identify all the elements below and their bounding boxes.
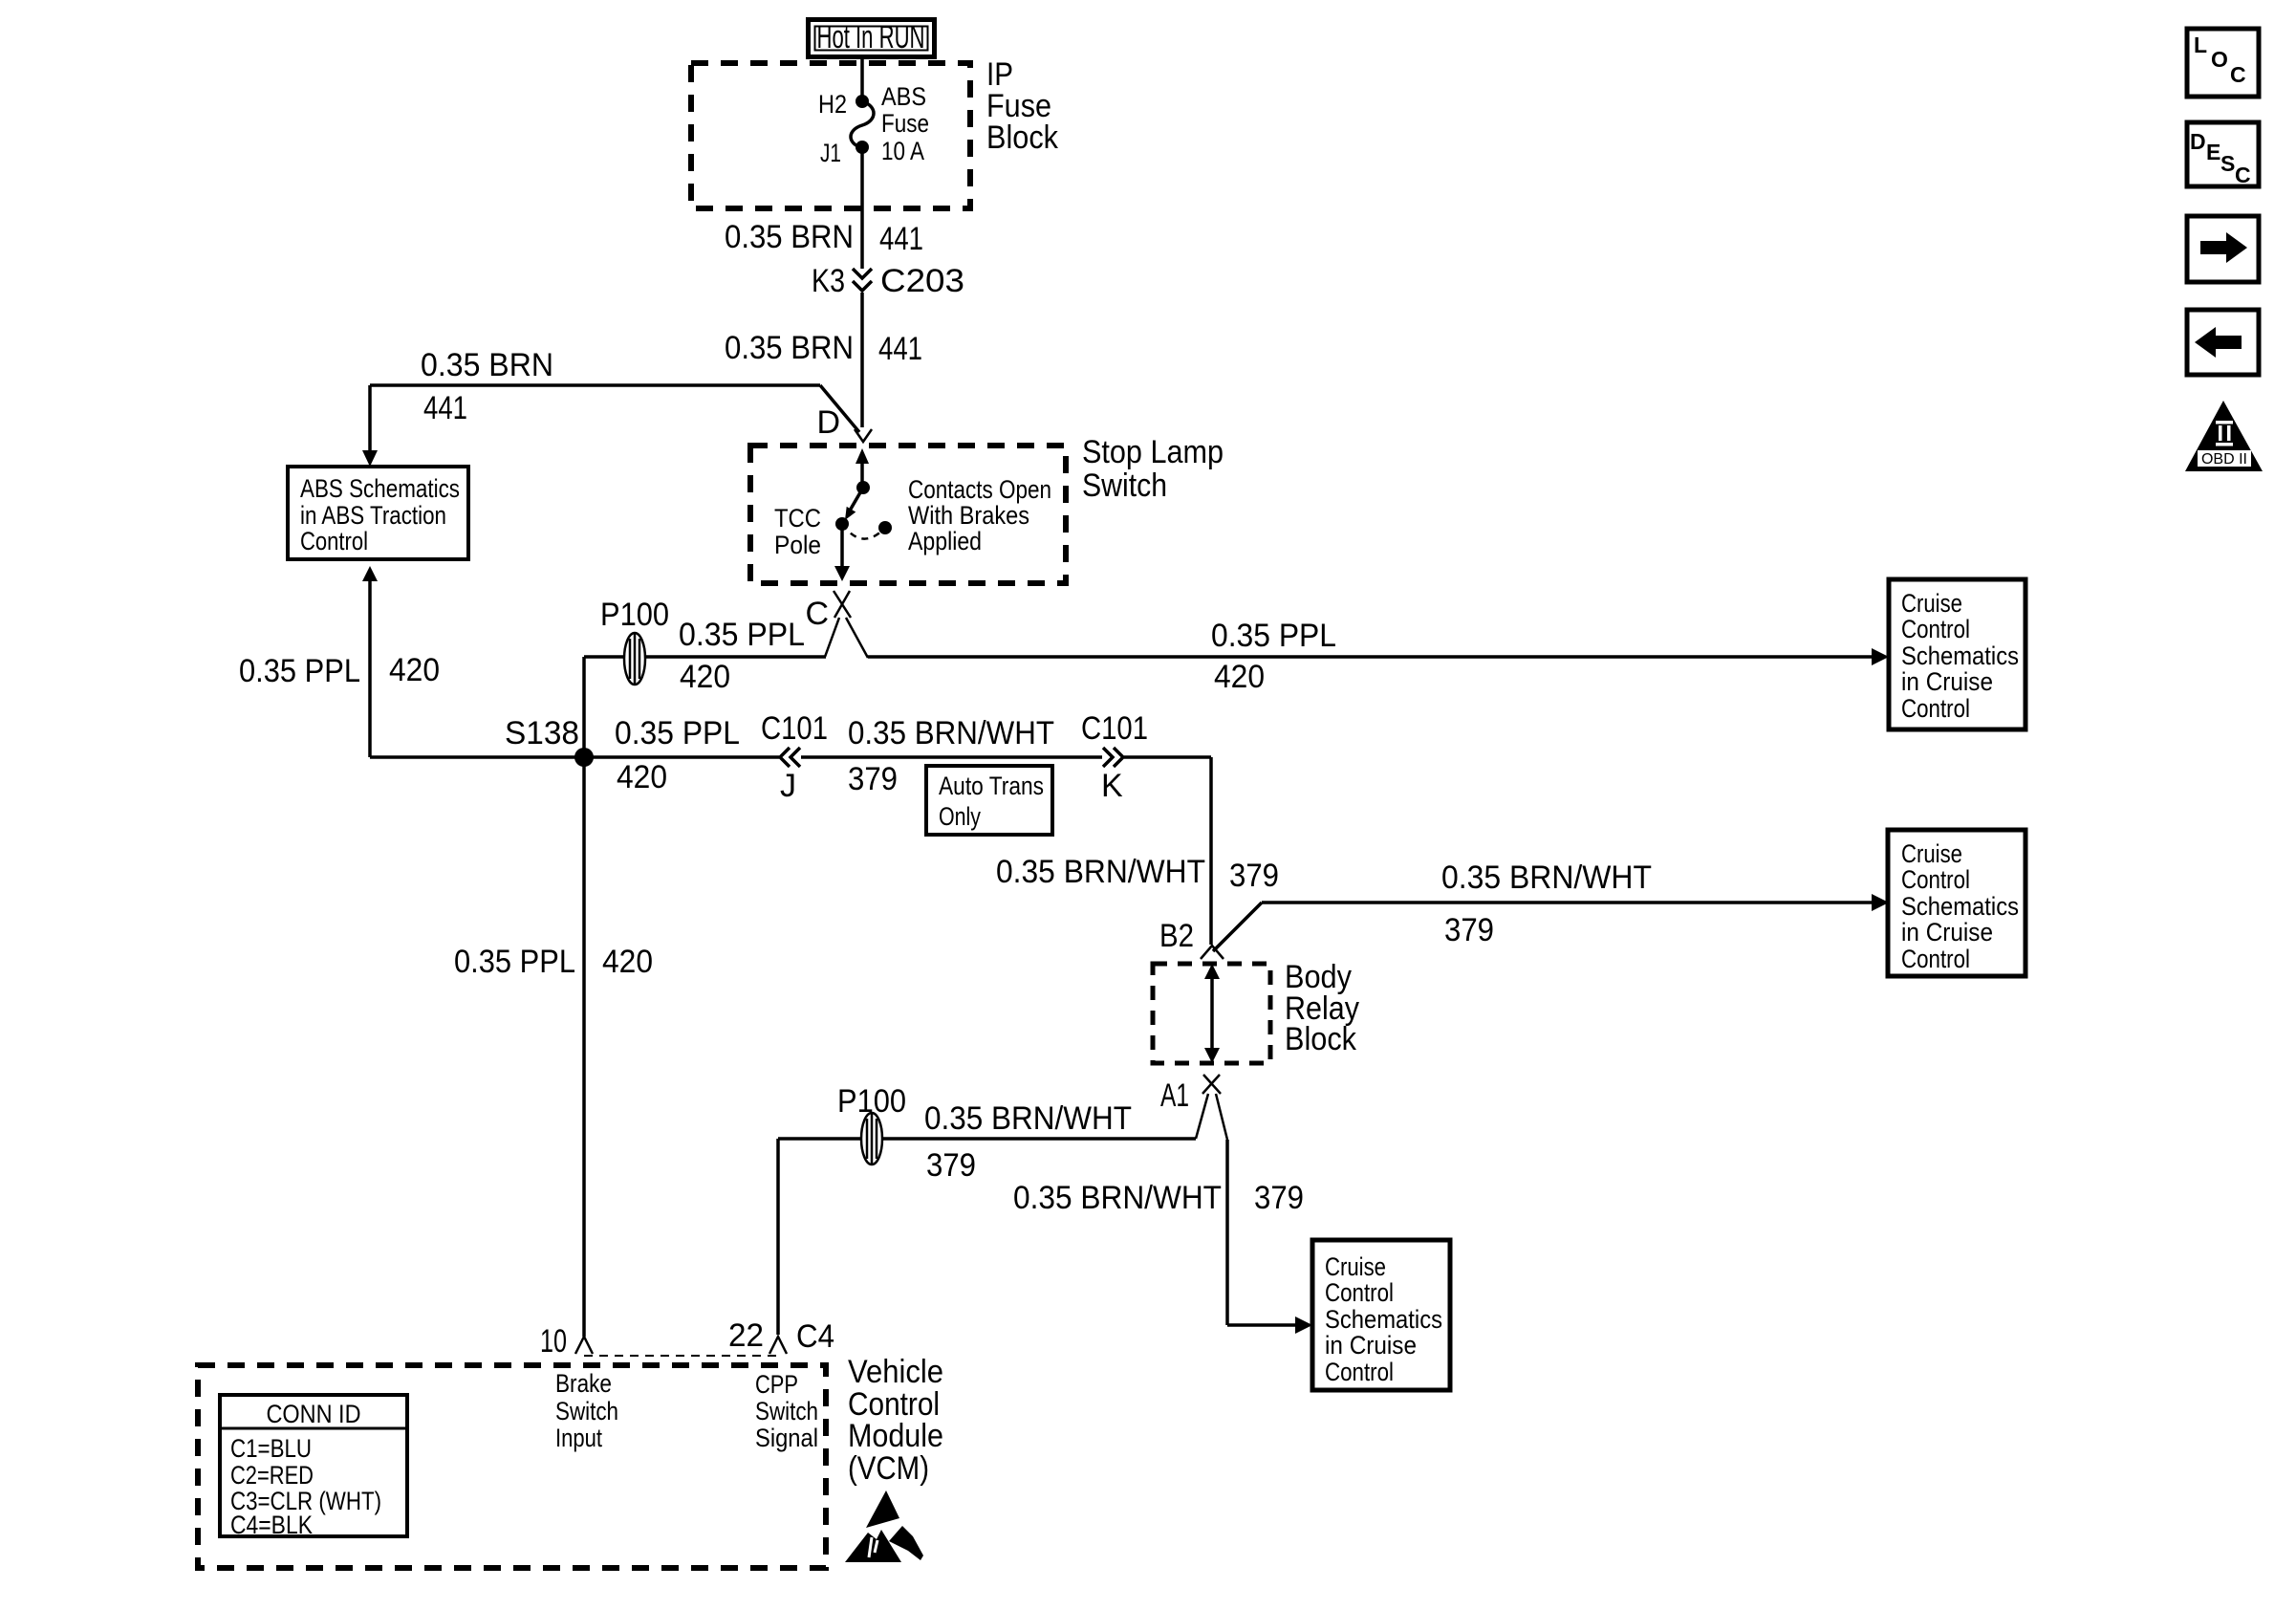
svg-text:C: C <box>2230 62 2246 87</box>
svg-text:420: 420 <box>1214 659 1265 695</box>
svg-text:420: 420 <box>617 759 667 795</box>
svg-text:Brake: Brake <box>555 1369 612 1398</box>
connector K3 C203 <box>812 263 964 299</box>
splice S138 <box>505 715 594 767</box>
svg-text:C203: C203 <box>880 263 964 299</box>
ABS schematics reference box <box>288 467 468 559</box>
svg-text:Applied: Applied <box>908 527 982 555</box>
ESD sensitivity symbol <box>845 1490 923 1562</box>
dashed throw arc <box>842 524 885 539</box>
vehicle control module dashed box <box>198 1365 826 1568</box>
arrow into ABS box <box>362 450 378 467</box>
svg-text:CPP: CPP <box>755 1370 798 1399</box>
svg-text:B2: B2 <box>1159 918 1194 954</box>
svg-text:0.35 BRN: 0.35 BRN <box>725 330 854 366</box>
svg-text:Block: Block <box>1285 1021 1357 1057</box>
connector pin 10 <box>540 1323 593 1360</box>
wire 0.35 BRN to ABS schematics <box>370 385 859 453</box>
svg-text:0.35 BRN/WHT: 0.35 BRN/WHT <box>996 854 1205 890</box>
connector P100 (lower) <box>837 1083 906 1164</box>
connector A1 <box>1160 1075 1227 1140</box>
wire label 0.35 BRN/WHT 379 (above B2) <box>996 854 1279 894</box>
OBD II symbol <box>2185 401 2263 471</box>
svg-text:H2: H2 <box>818 90 847 119</box>
label CPP Switch Signal <box>755 1370 818 1452</box>
wire K to B2 <box>1124 757 1211 945</box>
connector C101 K <box>1081 710 1148 804</box>
svg-text:Module: Module <box>848 1418 943 1454</box>
connector C101 J <box>761 710 828 804</box>
svg-text:C: C <box>2235 163 2251 187</box>
switch pole node <box>856 481 870 494</box>
connector D <box>816 404 872 442</box>
switch arm with arrowhead <box>845 488 863 520</box>
label IP Fuse Block <box>986 56 1059 156</box>
svg-text:Pole: Pole <box>774 531 821 559</box>
svg-text:D: D <box>816 404 840 441</box>
svg-text:420: 420 <box>680 659 730 695</box>
svg-text:Control: Control <box>300 527 368 555</box>
connector pin 22 C4 <box>728 1317 834 1355</box>
wire C203 to D <box>860 293 864 427</box>
wire label 0.35 BRN 441 (upper) <box>725 219 923 257</box>
wire pole down with arrow <box>834 524 850 581</box>
svg-text:Schematics: Schematics <box>1901 642 2019 670</box>
IP fuse block dashed box <box>691 63 970 208</box>
svg-text:in Cruise: in Cruise <box>1325 1331 1417 1360</box>
label Stop Lamp Switch <box>1082 434 1224 504</box>
wire C to cruise control schematics with arrow <box>868 648 1889 665</box>
svg-text:420: 420 <box>602 944 653 980</box>
wire VCM pin 22 to A1 <box>778 1139 1196 1335</box>
svg-text:in Cruise: in Cruise <box>1901 918 1993 946</box>
svg-text:Vehicle: Vehicle <box>848 1354 943 1390</box>
svg-text:K3: K3 <box>812 263 845 299</box>
svg-text:441: 441 <box>879 221 923 257</box>
svg-text:D: D <box>2190 129 2206 154</box>
svg-text:Input: Input <box>555 1424 602 1452</box>
svg-text:S: S <box>2220 151 2235 176</box>
wire label 0.35 BRN/WHT 379 (A1 drop) <box>1013 1180 1304 1216</box>
svg-text:10: 10 <box>540 1323 567 1360</box>
svg-text:Contacts Open: Contacts Open <box>908 475 1051 504</box>
note box Auto Trans Only <box>926 766 1052 835</box>
svg-text:Control: Control <box>1325 1358 1394 1386</box>
wire branch to cruise control 2 with arrow <box>1213 894 1889 951</box>
label Vehicle Control Module (VCM) <box>848 1354 943 1487</box>
svg-text:Fuse: Fuse <box>881 109 929 138</box>
node J1 <box>820 139 869 167</box>
button next arrow <box>2187 216 2259 282</box>
svg-text:Control: Control <box>1901 694 1970 723</box>
svg-text:0.35 BRN/WHT: 0.35 BRN/WHT <box>1013 1180 1222 1216</box>
node H2 <box>818 90 869 119</box>
svg-text:0.35 BRN: 0.35 BRN <box>725 219 854 255</box>
wire label 0.35 PPL 420 (S138 drop) <box>454 944 653 980</box>
svg-text:Auto Trans: Auto Trans <box>939 772 1044 800</box>
wire J1 to C203 <box>860 147 864 269</box>
svg-text:Block: Block <box>986 120 1059 156</box>
svg-text:Only: Only <box>939 802 981 831</box>
CONN ID table <box>220 1395 407 1539</box>
fuse ABS Fuse 10 A <box>851 82 929 165</box>
label TCC Pole <box>774 504 821 559</box>
wire label 0.35 BRN/WHT 379 (J to K) <box>848 715 1054 797</box>
svg-text:Control: Control <box>1325 1278 1394 1307</box>
svg-text:P100: P100 <box>600 597 669 633</box>
wire label 0.35 PPL 420 (P100 top) <box>679 617 805 695</box>
svg-text:Switch: Switch <box>555 1397 618 1425</box>
svg-text:10 A: 10 A <box>881 137 924 165</box>
wire S138 riser <box>582 657 586 1337</box>
svg-text:Control: Control <box>1901 945 1970 973</box>
svg-text:TCC: TCC <box>774 504 821 533</box>
svg-text:0.35 BRN: 0.35 BRN <box>421 347 553 383</box>
wire label 0.35 BRN/WHT 379 (branch right) <box>1441 859 1652 948</box>
svg-text:0.35 PPL: 0.35 PPL <box>454 944 575 980</box>
wire label 0.35 BRN 441 (left) <box>421 347 553 426</box>
dashed wire between pin 10 and 22 <box>584 1355 778 1357</box>
cruise control reference box 3 <box>1312 1240 1450 1390</box>
svg-text:C1=BLU: C1=BLU <box>230 1434 312 1463</box>
button LOC <box>2187 29 2259 97</box>
svg-text:Cruise: Cruise <box>1325 1252 1386 1281</box>
wire P100 to C <box>584 655 826 659</box>
wire J to K <box>801 755 1102 759</box>
svg-text:(VCM): (VCM) <box>848 1450 929 1487</box>
label Brake Switch Input <box>555 1369 618 1452</box>
svg-text:0.35 BRN/WHT: 0.35 BRN/WHT <box>924 1100 1132 1137</box>
svg-text:C2=RED: C2=RED <box>230 1461 314 1490</box>
body relay block dashed box <box>1153 964 1270 1063</box>
svg-text:C101: C101 <box>761 710 828 747</box>
svg-text:Switch: Switch <box>755 1397 818 1425</box>
svg-text:in Cruise: in Cruise <box>1901 667 1993 696</box>
svg-text:S138: S138 <box>505 715 579 751</box>
body relay block through wire arrows <box>1204 964 1220 1063</box>
svg-text:J1: J1 <box>820 139 841 167</box>
svg-text:L: L <box>2194 33 2207 57</box>
svg-text:Hot In RUN: Hot In RUN <box>817 19 925 55</box>
svg-text:C: C <box>805 596 829 632</box>
svg-text:O: O <box>2211 47 2228 72</box>
svg-text:C4: C4 <box>796 1318 834 1355</box>
svg-text:C101: C101 <box>1081 710 1148 747</box>
svg-text:0.35 PPL: 0.35 PPL <box>1211 618 1336 654</box>
svg-text:379: 379 <box>1254 1180 1304 1216</box>
connector C <box>805 591 868 658</box>
wire label 0.35 PPL 420 (long right) <box>1211 618 1336 695</box>
wire S138 to J <box>584 755 779 759</box>
svg-text:Schematics: Schematics <box>1901 892 2019 921</box>
svg-text:in ABS Traction: in ABS Traction <box>300 501 446 530</box>
wire label 0.35 BRN 441 (above D) <box>725 330 922 367</box>
connector P100 (upper) <box>600 597 669 685</box>
svg-text:Cruise: Cruise <box>1901 589 1962 618</box>
svg-text:0.35 PPL: 0.35 PPL <box>615 715 740 751</box>
button back arrow <box>2187 310 2259 375</box>
svg-text:379: 379 <box>1229 858 1279 894</box>
button DESC <box>2187 122 2259 187</box>
wire label 0.35 PPL 420 (left riser) <box>239 652 440 689</box>
wire from Hot In RUN to fuse block <box>860 57 864 96</box>
svg-text:379: 379 <box>1444 912 1494 948</box>
svg-text:CONN ID: CONN ID <box>267 1400 361 1428</box>
second contact node <box>878 521 892 534</box>
svg-text:C4=BLK: C4=BLK <box>230 1511 313 1539</box>
TCC pole node <box>835 517 849 531</box>
svg-text:With Brakes: With Brakes <box>908 501 1029 530</box>
svg-text:420: 420 <box>389 652 440 688</box>
connector B2 <box>1159 918 1224 959</box>
svg-text:Control: Control <box>1901 865 1970 894</box>
svg-text:441: 441 <box>878 331 922 367</box>
svg-text:A1: A1 <box>1160 1077 1189 1114</box>
svg-text:0.35 PPL: 0.35 PPL <box>679 617 805 653</box>
svg-text:Cruise: Cruise <box>1901 839 1962 868</box>
svg-text:379: 379 <box>848 761 898 797</box>
cruise control reference box 1 <box>1889 579 2025 729</box>
svg-text:Switch: Switch <box>1082 468 1167 504</box>
svg-text:Stop Lamp: Stop Lamp <box>1082 434 1224 470</box>
wire label 0.35 PPL 420 (S138 to J) <box>615 715 740 795</box>
wire ABS riser (left) <box>362 566 584 757</box>
svg-text:ABS: ABS <box>881 82 926 111</box>
stop lamp switch dashed box <box>750 446 1066 583</box>
svg-text:22: 22 <box>728 1317 764 1354</box>
svg-text:379: 379 <box>926 1147 976 1184</box>
label Body Relay Block <box>1285 959 1359 1057</box>
svg-text:0.35 BRN/WHT: 0.35 BRN/WHT <box>1441 859 1652 896</box>
wire A1 to cruise control 3 <box>1227 1140 1312 1334</box>
switch contact arrow up <box>856 448 869 488</box>
svg-text:0.35 PPL: 0.35 PPL <box>239 653 360 689</box>
power label box Hot In RUN <box>809 19 935 57</box>
svg-text:E: E <box>2206 140 2220 164</box>
svg-text:ABS Schematics: ABS Schematics <box>300 474 460 503</box>
svg-text:441: 441 <box>423 390 467 426</box>
svg-text:K: K <box>1101 768 1123 804</box>
svg-text:Signal: Signal <box>755 1424 818 1452</box>
svg-text:0.35 BRN/WHT: 0.35 BRN/WHT <box>848 715 1054 751</box>
svg-text:J: J <box>780 768 796 804</box>
svg-text:Control: Control <box>1901 615 1970 643</box>
wire label 0.35 BRN/WHT 379 (lower P100) <box>924 1100 1132 1184</box>
cruise control reference box 2 <box>1888 830 2025 976</box>
svg-text:Schematics: Schematics <box>1325 1305 1442 1334</box>
svg-text:OBD II: OBD II <box>2201 451 2247 468</box>
label Contacts Open With Brakes Applied <box>908 475 1051 555</box>
